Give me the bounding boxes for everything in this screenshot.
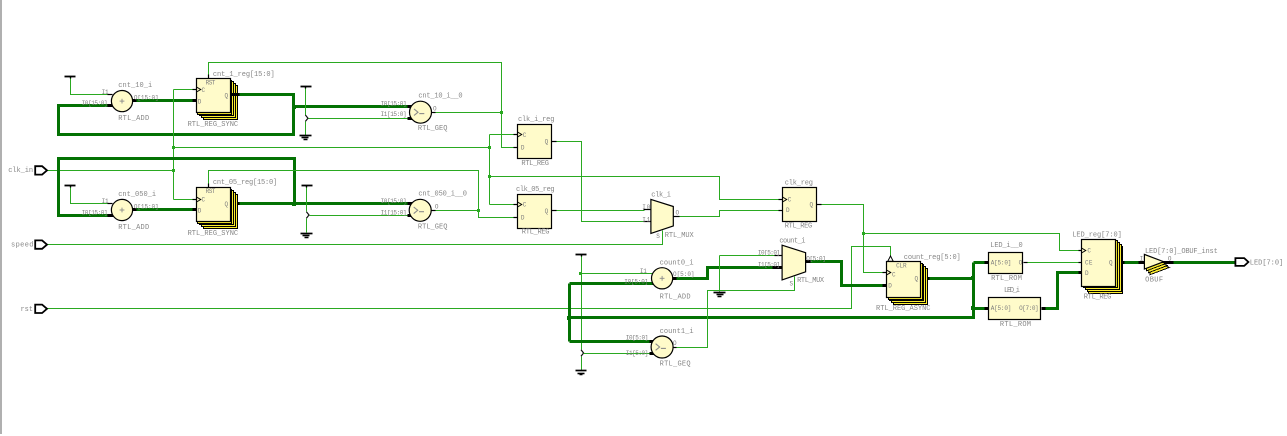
svg-text:Q: Q: [545, 208, 549, 215]
svg-text:O[15:0]: O[15:0]: [134, 204, 159, 211]
wire const to cnt_050_i__0 I1: [310, 215, 409, 217]
junction cnt_1_reg Q net: [292, 105, 296, 109]
wire LED_i__0 O to LED_reg CE: [1028, 262, 1079, 264]
svg-text:O[15:0]: O[15:0]: [134, 94, 159, 101]
wire count bus: count_reg Q to count0_i I0 / count1_i I0: [930, 277, 974, 280]
wire clk net to clk_reg C: [490, 177, 779, 200]
svg-text:count_reg[5:0]: count_reg[5:0]: [904, 254, 961, 262]
adder count0_i (RTL_ADD): [652, 268, 677, 289]
wire const to cnt_10_i__0 I1: [309, 118, 409, 120]
wire cnt_1_reg Q feedback loop to cnt_10_i I0: [59, 95, 294, 135]
svg-text:I1: I1: [642, 216, 650, 223]
register cnt_05_reg[15:0] (RTL_REG_SYNC): [193, 184, 240, 229]
wire cnt_10_i O to cnt_1_reg D: [136, 99, 193, 102]
svg-text:cnt_10_i: cnt_10_i: [118, 82, 152, 90]
svg-text:I0[5:0]: I0[5:0]: [624, 279, 648, 286]
svg-text:D: D: [521, 145, 525, 152]
wire cnt_050 loop: cnt_05_reg Q over-the-top feedback: [59, 159, 295, 216]
svg-text:I: I: [1140, 256, 1144, 263]
junction cnt_05_reg Q net: [292, 202, 296, 206]
svg-text:O: O: [1168, 256, 1172, 263]
svg-text:O: O: [673, 340, 677, 347]
svg-text:C: C: [202, 87, 206, 94]
svg-text:Q: Q: [915, 275, 919, 282]
wire cnt_1_reg Q to cnt_10_i__0 I0: [294, 105, 408, 108]
power constant T (cnt_10_i I1): [65, 77, 76, 79]
svg-text:I0[5:0]: I0[5:0]: [758, 249, 780, 256]
mux clk_i (RTL_MUX): [644, 199, 680, 233]
svg-text:clk_in: clk_in: [8, 167, 33, 175]
svg-text:A[5:0]: A[5:0]: [991, 260, 1012, 267]
wire const to count0_i I1: [582, 273, 655, 275]
svg-text:Q: Q: [1109, 260, 1113, 267]
wire count0_i O to count_i I1: [674, 268, 774, 279]
page border left edge: [0, 0, 2, 434]
wire clk_reg Q to count_reg C and LED_reg C: [821, 205, 883, 273]
svg-text:RTL_MUX: RTL_MUX: [797, 277, 825, 285]
svg-text:O[5:0]: O[5:0]: [673, 271, 695, 278]
wire const to count1_i I1: [584, 353, 655, 355]
mux count_i (RTL_MUX): [773, 245, 811, 280]
svg-text:count_i: count_i: [779, 238, 805, 246]
svg-text:LED_i__0: LED_i__0: [990, 242, 1022, 250]
output port LED[7:0]: [1235, 258, 1248, 266]
svg-text:RTL_REG_ASYNC: RTL_REG_ASYNC: [876, 305, 931, 313]
buffer LED[7:0]_OBUF_inst (OBUF): [1139, 254, 1174, 274]
svg-text:D: D: [521, 214, 525, 221]
junction RST1 net: [500, 111, 503, 114]
register cnt_1_reg[15:0] (RTL_REG_SYNC): [193, 75, 240, 120]
svg-text:cnt_050_i: cnt_050_i: [118, 191, 156, 199]
power constant T (cnt_050_i I1): [65, 186, 76, 188]
svg-text:RST: RST: [206, 79, 216, 86]
svg-text:I1[15:0]: I1[15:0]: [381, 111, 407, 118]
junction count const: [579, 272, 582, 275]
wire cnt_05_reg RST from cnt_050_i__0 O: [435, 211, 514, 218]
svg-text:D: D: [786, 207, 790, 214]
svg-text:C: C: [892, 272, 896, 279]
svg-text:RTL_ROM: RTL_ROM: [991, 275, 1022, 283]
comparator count1_i (RTL_GEQ): [650, 336, 677, 358]
svg-text:I0: I0: [642, 204, 650, 211]
register clk_reg (RTL_REG): [779, 188, 822, 222]
junction RST2 net: [477, 209, 480, 212]
svg-text:RTL_GEQ: RTL_GEQ: [418, 224, 448, 232]
svg-text:D: D: [198, 208, 202, 215]
svg-text:Q: Q: [225, 92, 229, 99]
junction clk net at x490: [488, 146, 491, 149]
svg-text:C: C: [523, 202, 527, 209]
svg-text:O: O: [435, 203, 439, 210]
comparator cnt_10_i__0 (RTL_GEQ): [408, 101, 436, 123]
wire const to cnt_10_i I1: [71, 79, 108, 95]
svg-text:I0[15:0]: I0[15:0]: [82, 100, 108, 107]
bus ripper squiggle (count const): [581, 350, 584, 356]
svg-text:cnt_05_reg[15:0]: cnt_05_reg[15:0]: [213, 179, 277, 187]
svg-text:clk_05_reg: clk_05_reg: [516, 186, 555, 194]
svg-text:RTL_REG: RTL_REG: [521, 160, 549, 168]
comparator cnt_050_i__0 (RTL_GEQ): [408, 199, 436, 221]
svg-text:speed: speed: [11, 242, 34, 250]
svg-text:RTL_ADD: RTL_ADD: [660, 293, 691, 301]
svg-text:clk_i_reg: clk_i_reg: [518, 116, 554, 124]
svg-text:I1: I1: [102, 198, 109, 205]
constant column (cnt_050_i__0 I1 compare value): [302, 186, 313, 188]
svg-text:S: S: [790, 280, 794, 287]
bus ripper squiggle: [305, 115, 308, 121]
CLR bubble triangle: [888, 256, 893, 261]
svg-text:I0[15:0]: I0[15:0]: [82, 209, 108, 216]
wire LED_reg Q to OBUF I: [1125, 261, 1141, 264]
svg-text:LED[7:0]: LED[7:0]: [1250, 259, 1283, 267]
svg-text:O: O: [676, 210, 680, 217]
ground (const column B): [301, 234, 313, 238]
svg-text:RTL_REG_SYNC: RTL_REG_SYNC: [188, 121, 239, 129]
svg-text:count1_i: count1_i: [660, 328, 694, 336]
input port rst: [35, 305, 47, 313]
wire count1_i O to count_i S: [674, 277, 795, 348]
rom LED_i__0 (RTL_ROM): [985, 253, 1028, 274]
svg-text:O[7:0]: O[7:0]: [1019, 305, 1039, 312]
svg-text:RTL_REG: RTL_REG: [522, 228, 550, 236]
register clk_05_reg (RTL_REG): [514, 195, 557, 229]
svg-text:clk_reg: clk_reg: [785, 180, 813, 188]
svg-text:clk_i: clk_i: [651, 192, 671, 200]
wire cnt_050_i O to cnt_05_reg D: [136, 208, 193, 211]
svg-text:count0_i: count0_i: [660, 260, 694, 268]
power constant T (count const column): [576, 255, 587, 257]
constant column (cnt_10_i__0 I1 compare value): [301, 87, 312, 89]
svg-text:rst: rst: [21, 306, 34, 314]
input port clk_in: [35, 166, 47, 174]
svg-text:O[5:0]: O[5:0]: [806, 256, 826, 263]
svg-text:RTL_REG: RTL_REG: [785, 223, 813, 231]
svg-text:cnt_10_i__0: cnt_10_i__0: [418, 93, 462, 101]
wire LED_i O to LED_reg D: [1046, 273, 1079, 309]
wire count_i O to count_reg D: [810, 262, 883, 286]
svg-text:RTL_REG: RTL_REG: [1084, 294, 1112, 302]
svg-text:CLR: CLR: [896, 263, 907, 270]
wire count_i I0 const ground: [720, 255, 778, 257]
svg-text:O: O: [1019, 260, 1023, 267]
svg-text:I1[15:0]: I1[15:0]: [381, 209, 407, 216]
ground (const column A): [300, 136, 312, 140]
svg-text:cnt_050_i__0: cnt_050_i__0: [418, 190, 467, 198]
wire clk_i_reg Q to clk_i mux I1: [557, 142, 645, 222]
svg-text:RTL_REG_SYNC: RTL_REG_SYNC: [188, 230, 239, 238]
svg-text:LED[7:0]_OBUF_inst: LED[7:0]_OBUF_inst: [1145, 248, 1218, 256]
register clk_i_reg (RTL_REG): [514, 125, 557, 159]
ground (count_i I0): [714, 293, 726, 297]
wire rst to count_reg CLR: [46, 247, 891, 309]
svg-text:Q: Q: [545, 138, 549, 145]
wire OBUF O to LED[7:0] port: [1173, 261, 1236, 264]
adder cnt_10_i (RTL_ADD): [108, 91, 137, 112]
junction clk_in at x173: [172, 169, 175, 172]
svg-text:D: D: [1085, 270, 1089, 277]
svg-text:I1: I1: [640, 268, 647, 275]
wire cnt_05_reg Q to cnt_050_i__0 I0: [240, 202, 408, 205]
svg-text:CE: CE: [1085, 260, 1093, 267]
wire speed to clk_i mux S: [46, 231, 663, 245]
svg-text:LED_reg[7:0]: LED_reg[7:0]: [1072, 232, 1122, 240]
svg-text:Q: Q: [225, 201, 229, 208]
svg-text:RTL_MUX: RTL_MUX: [665, 232, 695, 240]
svg-text:I0[15:0]: I0[15:0]: [381, 198, 407, 205]
svg-text:RST: RST: [206, 188, 216, 195]
junction clk_reg Q net: [862, 232, 865, 235]
svg-text:RTL_ADD: RTL_ADD: [118, 115, 149, 123]
svg-text:RTL_GEQ: RTL_GEQ: [660, 360, 691, 368]
svg-text:cnt_1_reg[15:0]: cnt_1_reg[15:0]: [213, 71, 275, 79]
rom LED_i (RTL_ROM): [985, 298, 1046, 320]
svg-text:OBUF: OBUF: [1145, 276, 1163, 284]
wire clk_05_reg Q to clk_i mux I0: [557, 210, 645, 212]
wire clk_i mux O to clk_reg D: [678, 211, 779, 217]
svg-text:C: C: [523, 132, 527, 139]
svg-text:RTL_ROM: RTL_ROM: [1000, 321, 1031, 329]
wire cnt_1_reg RST from cnt_10_i__0 O: [436, 113, 514, 148]
svg-text:LED_i: LED_i: [1004, 287, 1020, 295]
input port speed: [35, 240, 47, 248]
ground (count const column): [576, 371, 587, 375]
svg-text:I1[5:0]: I1[5:0]: [626, 350, 649, 357]
svg-text:C: C: [202, 196, 206, 203]
svg-text:C: C: [788, 197, 792, 204]
wire clk_in to register C pins: [46, 170, 174, 172]
svg-text:D: D: [888, 282, 892, 289]
svg-text:I1[5:0]: I1[5:0]: [758, 262, 780, 269]
svg-text:C: C: [1087, 248, 1091, 255]
register count_reg[5:0] (RTL_REG_ASYNC): [883, 256, 930, 305]
register LED_reg[7:0] (RTL_REG): [1079, 240, 1125, 294]
adder cnt_050_i (RTL_ADD): [108, 199, 137, 220]
svg-text:D: D: [198, 99, 202, 106]
svg-text:O: O: [433, 106, 437, 113]
svg-text:I1: I1: [102, 89, 109, 96]
svg-text:RTL_GEQ: RTL_GEQ: [418, 125, 448, 133]
svg-text:I0[5:0]: I0[5:0]: [626, 335, 649, 342]
svg-text:I0[15:0]: I0[15:0]: [381, 101, 407, 108]
svg-text:A[5:0]: A[5:0]: [991, 305, 1012, 312]
junction count bus: [971, 276, 975, 280]
svg-text:RTL_ADD: RTL_ADD: [118, 224, 149, 232]
wire const to cnt_050_i I1: [71, 188, 108, 204]
svg-text:Q: Q: [810, 201, 814, 208]
svg-text:S: S: [656, 233, 660, 240]
